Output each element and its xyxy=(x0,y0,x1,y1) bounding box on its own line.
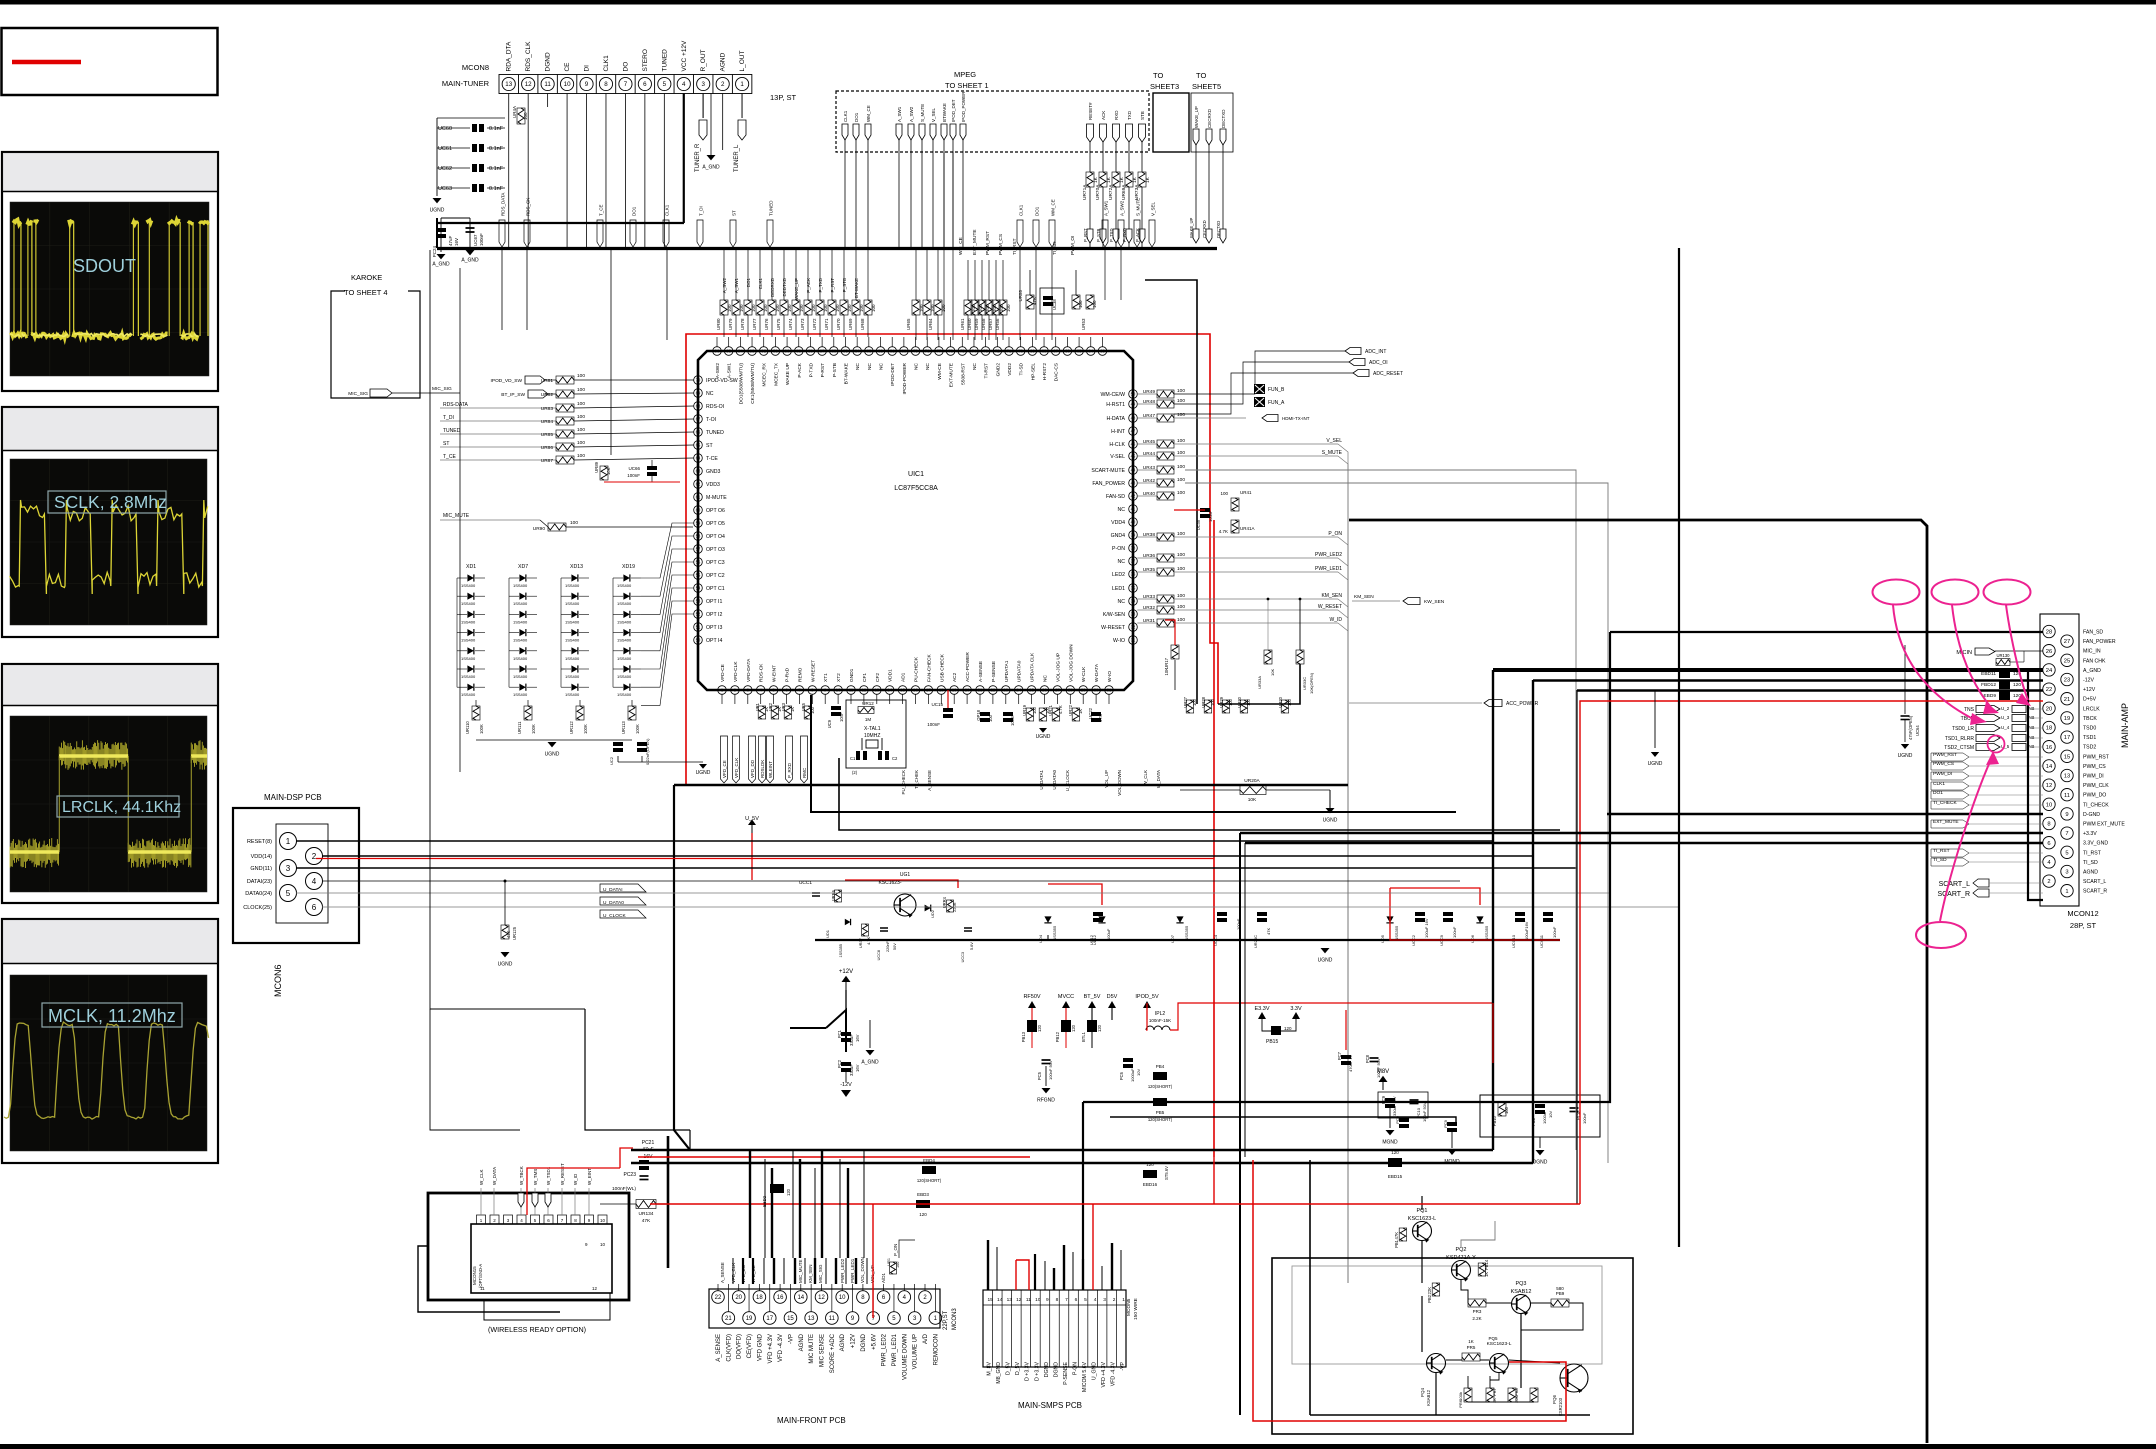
svg-text:UR110: UR110 xyxy=(465,721,470,734)
svg-text:UD6: UD6 xyxy=(1470,934,1475,943)
callout arrow bottom xyxy=(1940,757,1992,921)
svg-text:UPDATA0: UPDATA0 xyxy=(1017,660,1023,682)
svg-text:64: 64 xyxy=(696,456,701,461)
svg-text:RDSLDK: RDSLDK xyxy=(760,760,765,778)
svg-text:UR84: UR84 xyxy=(541,419,554,425)
svg-text:MCON15: MCON15 xyxy=(472,1266,477,1285)
svg-text:EBD3: EBD3 xyxy=(917,1192,929,1197)
svg-text:P_ACK: P_ACK xyxy=(1135,228,1140,242)
svg-text:TSD0_LR: TSD0_LR xyxy=(1952,726,1974,732)
bus verticals right xyxy=(1678,248,1680,1247)
svg-text:100: 100 xyxy=(577,401,585,407)
flag KM_SEN out xyxy=(1352,600,1400,602)
svg-text:UPDATA1: UPDATA1 xyxy=(1004,660,1010,682)
svg-text:UR33A: UR33A xyxy=(1257,676,1262,689)
svg-text:100: 100 xyxy=(1220,491,1228,496)
svg-text:DO1(5508/WM/TU): DO1(5508/WM/TU) xyxy=(738,363,744,405)
svg-text:100nF: 100nF xyxy=(1208,510,1213,522)
svg-text:4.7K: 4.7K xyxy=(1058,705,1063,714)
bead EBD3 120 xyxy=(916,1200,930,1208)
svg-text:SCORE +ADC: SCORE +ADC xyxy=(830,1333,836,1373)
svg-text:100uF 16V: 100uF 16V xyxy=(1424,918,1429,938)
scope panel LRCLK header xyxy=(3,665,217,705)
svg-text:60: 60 xyxy=(696,508,701,513)
red wire wireless xyxy=(620,1148,633,1168)
UIC1 bottom inner rotated labels xyxy=(720,644,1113,682)
svg-text:100: 100 xyxy=(1177,388,1185,394)
svg-text:PWR_LED1: PWR_LED1 xyxy=(1315,566,1342,572)
svg-text:KM_SEN: KM_SEN xyxy=(808,1264,813,1283)
svg-text:UR83: UR83 xyxy=(541,406,554,412)
capacitor UC64 47nF xyxy=(1904,645,1906,714)
connector MCON12 MAIN-AMP xyxy=(2040,614,2079,906)
bus +12V xyxy=(1577,689,2043,691)
svg-text:MIC SENSE: MIC SENSE xyxy=(820,1334,826,1367)
svg-text:100K: 100K xyxy=(635,724,640,734)
resistors UR41 UR41A 4.7K xyxy=(1231,498,1239,511)
svg-text:P-RxD: P-RxD xyxy=(785,667,791,682)
svg-text:RDS_CK: RDS_CK xyxy=(526,198,531,216)
svg-text:A_GND: A_GND xyxy=(432,262,450,268)
svg-text:U_3: U_3 xyxy=(2001,715,2010,720)
svg-text:WM_CE: WM_CE xyxy=(1051,199,1056,216)
svg-text:47nF(OPEN): 47nF(OPEN) xyxy=(1908,715,1913,740)
svg-text:ST5.6V: ST5.6V xyxy=(1164,1166,1169,1180)
resistors UR81-UR87 with input signals xyxy=(440,373,694,464)
svg-text:VFD +4.3V: VFD +4.3V xyxy=(1101,1361,1107,1387)
svg-text:15: 15 xyxy=(2064,754,2070,760)
resistor UR20A 10K xyxy=(1240,786,1266,795)
wires transistor cluster xyxy=(1421,1240,1423,1283)
bead EBD16 120 ST5.6V xyxy=(1143,1170,1157,1178)
svg-text:T_DI: T_DI xyxy=(699,206,704,216)
svg-text:100: 100 xyxy=(1177,593,1185,599)
svg-text:VFD -4.3V: VFD -4.3V xyxy=(778,1334,784,1362)
svg-text:P-STB: P-STB xyxy=(832,363,838,377)
svg-text:DAC-CS: DAC-CS xyxy=(1054,363,1060,381)
svg-text:OPT I1: OPT I1 xyxy=(706,599,722,605)
svg-text:X-TAL1: X-TAL1 xyxy=(864,726,881,732)
svg-text:UR78: UR78 xyxy=(740,318,745,330)
svg-text:UR33C: UR33C xyxy=(1302,677,1307,690)
svg-text:W_TBCK: W_TBCK xyxy=(519,1166,524,1185)
svg-text:1: 1 xyxy=(1122,1297,1125,1303)
svg-text:WLEINT: WLEINT xyxy=(768,761,773,778)
svg-text:PQ5: PQ5 xyxy=(1488,1336,1498,1341)
svg-text:VFD GND: VFD GND xyxy=(757,1333,763,1361)
svg-text:59: 59 xyxy=(696,521,701,526)
svg-text:MAIN-AMP: MAIN-AMP xyxy=(2120,703,2130,748)
svg-text:NC: NC xyxy=(879,362,885,369)
svg-text:H-RST1: H-RST1 xyxy=(1106,402,1125,408)
svg-text:1SS400: 1SS400 xyxy=(513,601,528,606)
svg-text:CLOCK(25): CLOCK(25) xyxy=(243,905,272,911)
svg-text:FBD12: FBD12 xyxy=(1981,682,1996,688)
svg-text:22: 22 xyxy=(2046,687,2052,693)
svg-text:TUNER_R: TUNER_R xyxy=(695,143,701,172)
svg-text:CE(VFD): CE(VFD) xyxy=(747,1334,753,1358)
svg-text:UR75: UR75 xyxy=(776,318,781,330)
svg-text:UR113: UR113 xyxy=(621,721,626,734)
svg-text:MIC_MUTE: MIC_MUTE xyxy=(443,513,470,519)
svg-text:KSAB12: KSAB12 xyxy=(1426,1389,1431,1406)
signal MIC_MUTE with resistor UR90 xyxy=(440,519,540,521)
svg-text:1SS400: 1SS400 xyxy=(565,638,580,643)
svg-text:12: 12 xyxy=(862,688,867,693)
svg-text:12: 12 xyxy=(525,81,532,88)
svg-text:U_DATA0: U_DATA0 xyxy=(1052,770,1057,790)
svg-text:100: 100 xyxy=(763,304,768,312)
svg-text:U_GND: U_GND xyxy=(1091,1362,1097,1380)
svg-text:S_MUTE: S_MUTE xyxy=(1136,198,1141,216)
svg-text:V-SEL: V-SEL xyxy=(1110,454,1125,460)
svg-text:PB5: PB5 xyxy=(1156,1110,1165,1115)
svg-text:13: 13 xyxy=(2064,774,2070,780)
svg-text:14: 14 xyxy=(2046,764,2053,770)
svg-text:UC62: UC62 xyxy=(438,166,452,172)
svg-text:PR5: PR5 xyxy=(1467,1345,1476,1350)
svg-text:XD1: XD1 xyxy=(466,564,476,570)
svg-text:STERO: STERO xyxy=(642,49,649,71)
svg-text:16V: 16V xyxy=(855,1064,860,1072)
svg-text:11: 11 xyxy=(849,688,854,693)
svg-text:27: 27 xyxy=(2064,639,2070,645)
svg-text:0.22nF(OPEN): 0.22nF(OPEN) xyxy=(645,738,650,765)
svg-text:W-DATA: W-DATA xyxy=(1094,663,1100,682)
svg-text:100nF: 100nF xyxy=(1552,926,1557,938)
svg-text:1SS400: 1SS400 xyxy=(513,674,528,679)
svg-text:DATA0(24): DATA0(24) xyxy=(245,891,272,897)
svg-text:CLK1: CLK1 xyxy=(603,55,610,72)
svg-text:PWM EXT_MUTE: PWM EXT_MUTE xyxy=(2083,822,2125,828)
svg-text:P_ACK: P_ACK xyxy=(806,278,811,293)
bus A_GND very thick xyxy=(1493,668,2043,672)
main signal bus horizontal xyxy=(437,247,1217,250)
svg-text:GND3: GND3 xyxy=(706,469,721,475)
connector box WIRELESS READY OPTION xyxy=(428,1193,629,1300)
svg-text:-VP: -VP xyxy=(788,1334,794,1344)
svg-text:1SS355: 1SS355 xyxy=(1484,925,1489,940)
svg-text:PR8: PR8 xyxy=(1514,1387,1519,1396)
svg-text:29: 29 xyxy=(1081,688,1086,693)
svg-text:68: 68 xyxy=(696,404,701,409)
svg-text:17: 17 xyxy=(766,1316,773,1322)
svg-text:WM-CE: WM-CE xyxy=(937,363,943,380)
svg-text:22P,ST: 22P,ST xyxy=(943,1310,949,1330)
svg-text:CLK(VFD): CLK(VFD) xyxy=(726,1334,732,1362)
svg-text:SHEET3: SHEET3 xyxy=(1150,82,1179,91)
svg-text:UR28: UR28 xyxy=(1201,696,1206,707)
svg-text:UR68: UR68 xyxy=(860,318,865,330)
svg-text:L_OUT: L_OUT xyxy=(739,51,746,72)
svg-text:91: 91 xyxy=(773,349,778,354)
svg-text:WAKE_UP: WAKE_UP xyxy=(1189,217,1194,238)
svg-text:UR41A: UR41A xyxy=(1240,526,1255,531)
svg-text:VFD-DATA: VFD-DATA xyxy=(746,658,752,682)
svg-text:DEDRXD: DEDRXD xyxy=(770,277,775,297)
bottom border bar xyxy=(0,1444,2156,1449)
svg-text:NC: NC xyxy=(925,362,931,369)
svg-text:100: 100 xyxy=(823,304,828,312)
scope panel SCLK label xyxy=(48,491,167,513)
svg-text:PWM_RST: PWM_RST xyxy=(985,231,991,255)
svg-text:P-ON: P-ON xyxy=(1112,546,1125,552)
capacitor PC9 PC10 top of transistor area xyxy=(1399,1118,1409,1128)
svg-text:100: 100 xyxy=(941,304,946,312)
svg-text:100: 100 xyxy=(1032,706,1037,714)
svg-text:100: 100 xyxy=(1177,438,1185,444)
svg-text:UR89: UR89 xyxy=(594,461,599,472)
svg-text:WAKE_UP: WAKE_UP xyxy=(794,278,799,300)
svg-text:U_2: U_2 xyxy=(2001,706,2010,711)
svg-text:UD5: UD5 xyxy=(1380,934,1385,943)
scope panel MCLK header xyxy=(3,920,217,963)
svg-text:XD19: XD19 xyxy=(622,564,635,570)
svg-text:8: 8 xyxy=(1056,1297,1059,1303)
svg-text:SCART_R: SCART_R xyxy=(2083,889,2107,895)
svg-text:RDS-CK: RDS-CK xyxy=(759,663,765,682)
diode matrix XD1 XD7 XD13 XD19 xyxy=(457,564,641,697)
svg-text:100: 100 xyxy=(577,373,585,379)
svg-text:D_5V: D_5V xyxy=(1006,1361,1012,1375)
svg-text:7: 7 xyxy=(1065,1297,1068,1303)
svg-text:77: 77 xyxy=(937,349,942,354)
svg-text:30: 30 xyxy=(1094,688,1099,693)
svg-text:VFD_DD: VFD_DD xyxy=(750,759,755,778)
svg-text:69: 69 xyxy=(696,391,701,396)
resistors PR6 PR7 PR8 PR9 xyxy=(1464,1388,1472,1402)
svg-text:100nF: 100nF xyxy=(627,473,640,478)
svg-text:1SS400: 1SS400 xyxy=(617,583,632,588)
resistor row above UIC1 UR80-UR88 xyxy=(716,248,876,337)
svg-text:65: 65 xyxy=(696,443,701,448)
svg-text:1SS400: 1SS400 xyxy=(461,656,476,661)
svg-text:2: 2 xyxy=(1113,1297,1116,1303)
svg-text:63: 63 xyxy=(1100,349,1105,354)
svg-text:P-TXD: P-TXD xyxy=(808,362,814,377)
svg-text:10: 10 xyxy=(2046,802,2052,808)
svg-text:AGND: AGND xyxy=(799,1333,805,1351)
svg-text:VOLUME UP: VOLUME UP xyxy=(913,1334,919,1369)
svg-text:A_GND: A_GND xyxy=(702,165,720,171)
svg-text:66: 66 xyxy=(696,430,701,435)
red wire into MCON3 pin7 xyxy=(872,1204,874,1318)
svg-text:PQ4: PQ4 xyxy=(1420,1388,1425,1398)
svg-text:VFD_CLK: VFD_CLK xyxy=(734,758,739,778)
scope panel SDOUT waveform xyxy=(10,219,209,339)
svg-text:UR69: UR69 xyxy=(848,318,853,330)
svg-text:W_RESET: W_RESET xyxy=(560,1163,565,1185)
svg-text:U_CLOCK: U_CLOCK xyxy=(603,913,626,919)
capacitor PC2 330uF xyxy=(841,1062,851,1072)
svg-text:120: 120 xyxy=(1284,1026,1292,1031)
svg-text:49: 49 xyxy=(1131,402,1136,407)
svg-text:1SS400: 1SS400 xyxy=(565,601,580,606)
svg-text:PB1: PB1 xyxy=(1394,1239,1399,1248)
svg-text:10K: 10K xyxy=(1270,669,1275,676)
svg-text:OPT O4: OPT O4 xyxy=(706,534,725,540)
svg-text:A_SW1: A_SW1 xyxy=(897,106,902,122)
svg-text:T_CE: T_CE xyxy=(443,454,456,460)
wire vertical x1197 xyxy=(1145,280,1197,704)
svg-text:PC5: PC5 xyxy=(1037,1071,1042,1080)
svg-text:PR3: PR3 xyxy=(1473,1309,1482,1314)
svg-text:M_8V: M_8V xyxy=(987,1361,993,1375)
svg-text:9: 9 xyxy=(1046,1297,1049,1303)
svg-text:CECRXD: CECRXD xyxy=(1202,220,1207,238)
svg-text:100: 100 xyxy=(859,304,864,312)
svg-text:PWR_LED2: PWR_LED2 xyxy=(882,1333,888,1366)
wires MCON8 pins down xyxy=(437,94,742,249)
svg-text:UC61: UC61 xyxy=(438,146,452,152)
svg-text:6: 6 xyxy=(2047,841,2050,847)
svg-text:+3.3V: +3.3V xyxy=(2083,831,2097,837)
svg-text:D +3.3V: D +3.3V xyxy=(1025,1361,1031,1380)
svg-text:MIC MUTE: MIC MUTE xyxy=(809,1334,815,1364)
enclosure box grey xyxy=(1292,1266,1602,1364)
svg-text:58: 58 xyxy=(696,534,701,539)
svg-text:6: 6 xyxy=(1075,1297,1078,1303)
svg-text:100: 100 xyxy=(1177,450,1185,456)
svg-text:23: 23 xyxy=(1003,688,1008,693)
bead EBD2 120 xyxy=(770,1184,784,1193)
power -12V xyxy=(845,1072,847,1082)
svg-text:85: 85 xyxy=(843,349,848,354)
svg-text:MVCC: MVCC xyxy=(1058,994,1074,1000)
svg-text:ADC_INT: ADC_INT xyxy=(1365,349,1386,355)
svg-text:ST: ST xyxy=(443,441,449,447)
svg-text:UC22: UC22 xyxy=(1088,707,1093,718)
svg-text:IPOD_DET: IPOD_DET xyxy=(951,99,956,122)
svg-text:W-RESET: W-RESET xyxy=(810,660,816,682)
svg-text:100: 100 xyxy=(577,440,585,446)
svg-text:OPT O5: OPT O5 xyxy=(706,521,725,527)
net labels PWM group xyxy=(1931,752,2043,866)
resistor PB14 1K xyxy=(1478,1263,1486,1276)
svg-text:DO1: DO1 xyxy=(854,112,859,122)
svg-text:42: 42 xyxy=(1131,494,1136,499)
svg-text:VFD-CLK: VFD-CLK xyxy=(733,661,739,682)
svg-text:15: 15 xyxy=(900,688,905,693)
transistor PQ5 KSC1623-L xyxy=(1490,1354,1509,1375)
svg-text:16: 16 xyxy=(913,688,918,693)
svg-text:NC: NC xyxy=(972,362,978,369)
flag TUNER_R xyxy=(702,94,704,119)
legend box top-left xyxy=(2,28,218,95)
svg-text:46: 46 xyxy=(1131,442,1136,447)
svg-text:AC2: AC2 xyxy=(952,672,958,682)
flag HDMI-TX-INT xyxy=(1262,415,1278,422)
scope panel SCLK screen xyxy=(10,459,207,625)
ground RFGND xyxy=(1045,1066,1047,1086)
svg-text:14: 14 xyxy=(797,1295,804,1301)
UIC1 top pin row xyxy=(713,337,1107,355)
flags ADC_INT ADC_OI ADC_RESET xyxy=(1174,348,1403,415)
svg-text:UR41: UR41 xyxy=(1240,490,1252,495)
capacitor PC1 330uF xyxy=(841,1032,851,1042)
svg-text:100: 100 xyxy=(811,304,816,312)
resistor group UR65 UR64 xyxy=(906,248,946,340)
svg-text:OPT C2: OPT C2 xyxy=(706,573,725,579)
svg-text:PWM_RST: PWM_RST xyxy=(2083,754,2110,760)
svg-text:UR76: UR76 xyxy=(764,318,769,330)
svg-text:1SS400: 1SS400 xyxy=(617,601,632,606)
bypass capacitors UC60-UC63 xyxy=(437,118,505,196)
svg-text:UR130: UR130 xyxy=(1996,653,2010,658)
svg-text:120(SHORT): 120(SHORT) xyxy=(1148,1117,1173,1122)
svg-text:13P, ST: 13P, ST xyxy=(770,93,797,102)
scope panel LRCLK frame xyxy=(2,664,218,903)
svg-text:83: 83 xyxy=(867,349,872,354)
svg-text:MIC_SIG: MIC_SIG xyxy=(348,391,368,397)
svg-text:UR2: UR2 xyxy=(768,702,773,711)
svg-text:P_TXD: P_TXD xyxy=(818,277,823,292)
svg-text:UC2: UC2 xyxy=(609,756,614,765)
svg-text:100: 100 xyxy=(799,304,804,312)
svg-text:4: 4 xyxy=(1094,1297,1097,1303)
svg-text:REMOCON: REMOCON xyxy=(933,1334,939,1365)
MCON6 pins 1-6 xyxy=(243,833,322,916)
svg-text:A_SW2: A_SW2 xyxy=(722,278,727,294)
ground A_GND tuner xyxy=(710,94,712,156)
svg-text:5.6V: 5.6V xyxy=(970,942,974,950)
svg-text:TSD1_RLRR: TSD1_RLRR xyxy=(1945,736,1975,742)
svg-text:RMC: RMC xyxy=(802,767,807,778)
svg-text:1SS400: 1SS400 xyxy=(513,619,528,624)
svg-text:TO SHEET 1: TO SHEET 1 xyxy=(945,81,989,90)
svg-text:ADC_RESET: ADC_RESET xyxy=(1373,371,1403,377)
svg-text:UR31: UR31 xyxy=(1143,618,1156,624)
UIC1 left pin column xyxy=(694,376,738,645)
svg-text:580: 580 xyxy=(1556,1286,1564,1291)
svg-text:100: 100 xyxy=(1177,552,1185,558)
svg-text:DEDTXD: DEDTXD xyxy=(782,277,787,296)
scope panel SDOUT screen xyxy=(10,202,209,376)
svg-text:(WIRELESS READY OPTION): (WIRELESS READY OPTION) xyxy=(488,1325,586,1334)
svg-text:100uF16V: 100uF16V xyxy=(1524,921,1529,940)
components row below UIC1 xyxy=(609,702,1161,795)
svg-text:UGND: UGND xyxy=(430,208,445,214)
ground DGND PC3 xyxy=(1539,1137,1541,1148)
svg-text:VOL_DOWN: VOL_DOWN xyxy=(860,1257,865,1283)
resistor UR55 47K and capacitor UC38 xyxy=(1026,295,1034,309)
resistor UR4A xyxy=(517,108,525,124)
svg-text:1SS400: 1SS400 xyxy=(513,656,528,661)
callout arrow 1 xyxy=(1893,605,1977,721)
svg-text:D +3.3V: D +3.3V xyxy=(1034,1361,1040,1380)
svg-text:H-RST2: H-RST2 xyxy=(1042,363,1048,381)
wires into MCON3 xyxy=(718,1258,935,1312)
capacitor UC15 100nF xyxy=(943,708,953,718)
svg-text:DGND: DGND xyxy=(861,1333,867,1351)
svg-text:PWR_LED1: PWR_LED1 xyxy=(892,1333,898,1366)
svg-text:100: 100 xyxy=(787,304,792,312)
red wire D+5V xyxy=(1580,701,2043,1204)
svg-text:RDS-DATA: RDS-DATA xyxy=(443,402,468,408)
svg-text:100: 100 xyxy=(775,304,780,312)
svg-text:TUNER_L: TUNER_L xyxy=(734,144,740,172)
scope panel LRCLK screen xyxy=(10,716,207,892)
svg-text:PWM_OI: PWM_OI xyxy=(1070,236,1076,255)
svg-text:2: 2 xyxy=(312,852,317,861)
svg-text:BT-WAKE: BT-WAKE xyxy=(854,278,859,298)
svg-text:UR111: UR111 xyxy=(517,721,522,734)
svg-text:UR58: UR58 xyxy=(981,318,986,330)
svg-text:U_DATA1: U_DATA1 xyxy=(1039,770,1044,790)
svg-text:18: 18 xyxy=(756,1295,763,1301)
svg-text:120(SHORT): 120(SHORT) xyxy=(1148,1084,1173,1089)
svg-text:USB CHECK: USB CHECK xyxy=(939,653,945,682)
